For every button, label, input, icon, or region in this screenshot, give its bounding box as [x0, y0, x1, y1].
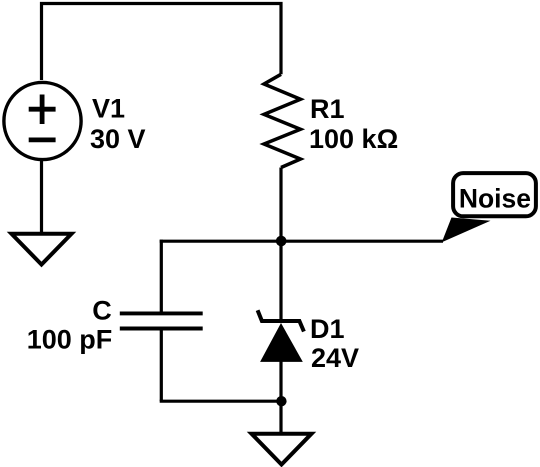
- svg-text:30 V: 30 V: [90, 124, 146, 154]
- svg-text:100 pF: 100 pF: [27, 324, 113, 354]
- svg-text:D1: D1: [310, 314, 345, 344]
- svg-text:24V: 24V: [311, 343, 359, 373]
- svg-text:R1: R1: [310, 94, 345, 124]
- svg-text:Noise: Noise: [459, 184, 531, 214]
- svg-text:100 kΩ: 100 kΩ: [309, 124, 398, 154]
- svg-text:V1: V1: [92, 94, 125, 124]
- svg-text:C: C: [92, 295, 112, 325]
